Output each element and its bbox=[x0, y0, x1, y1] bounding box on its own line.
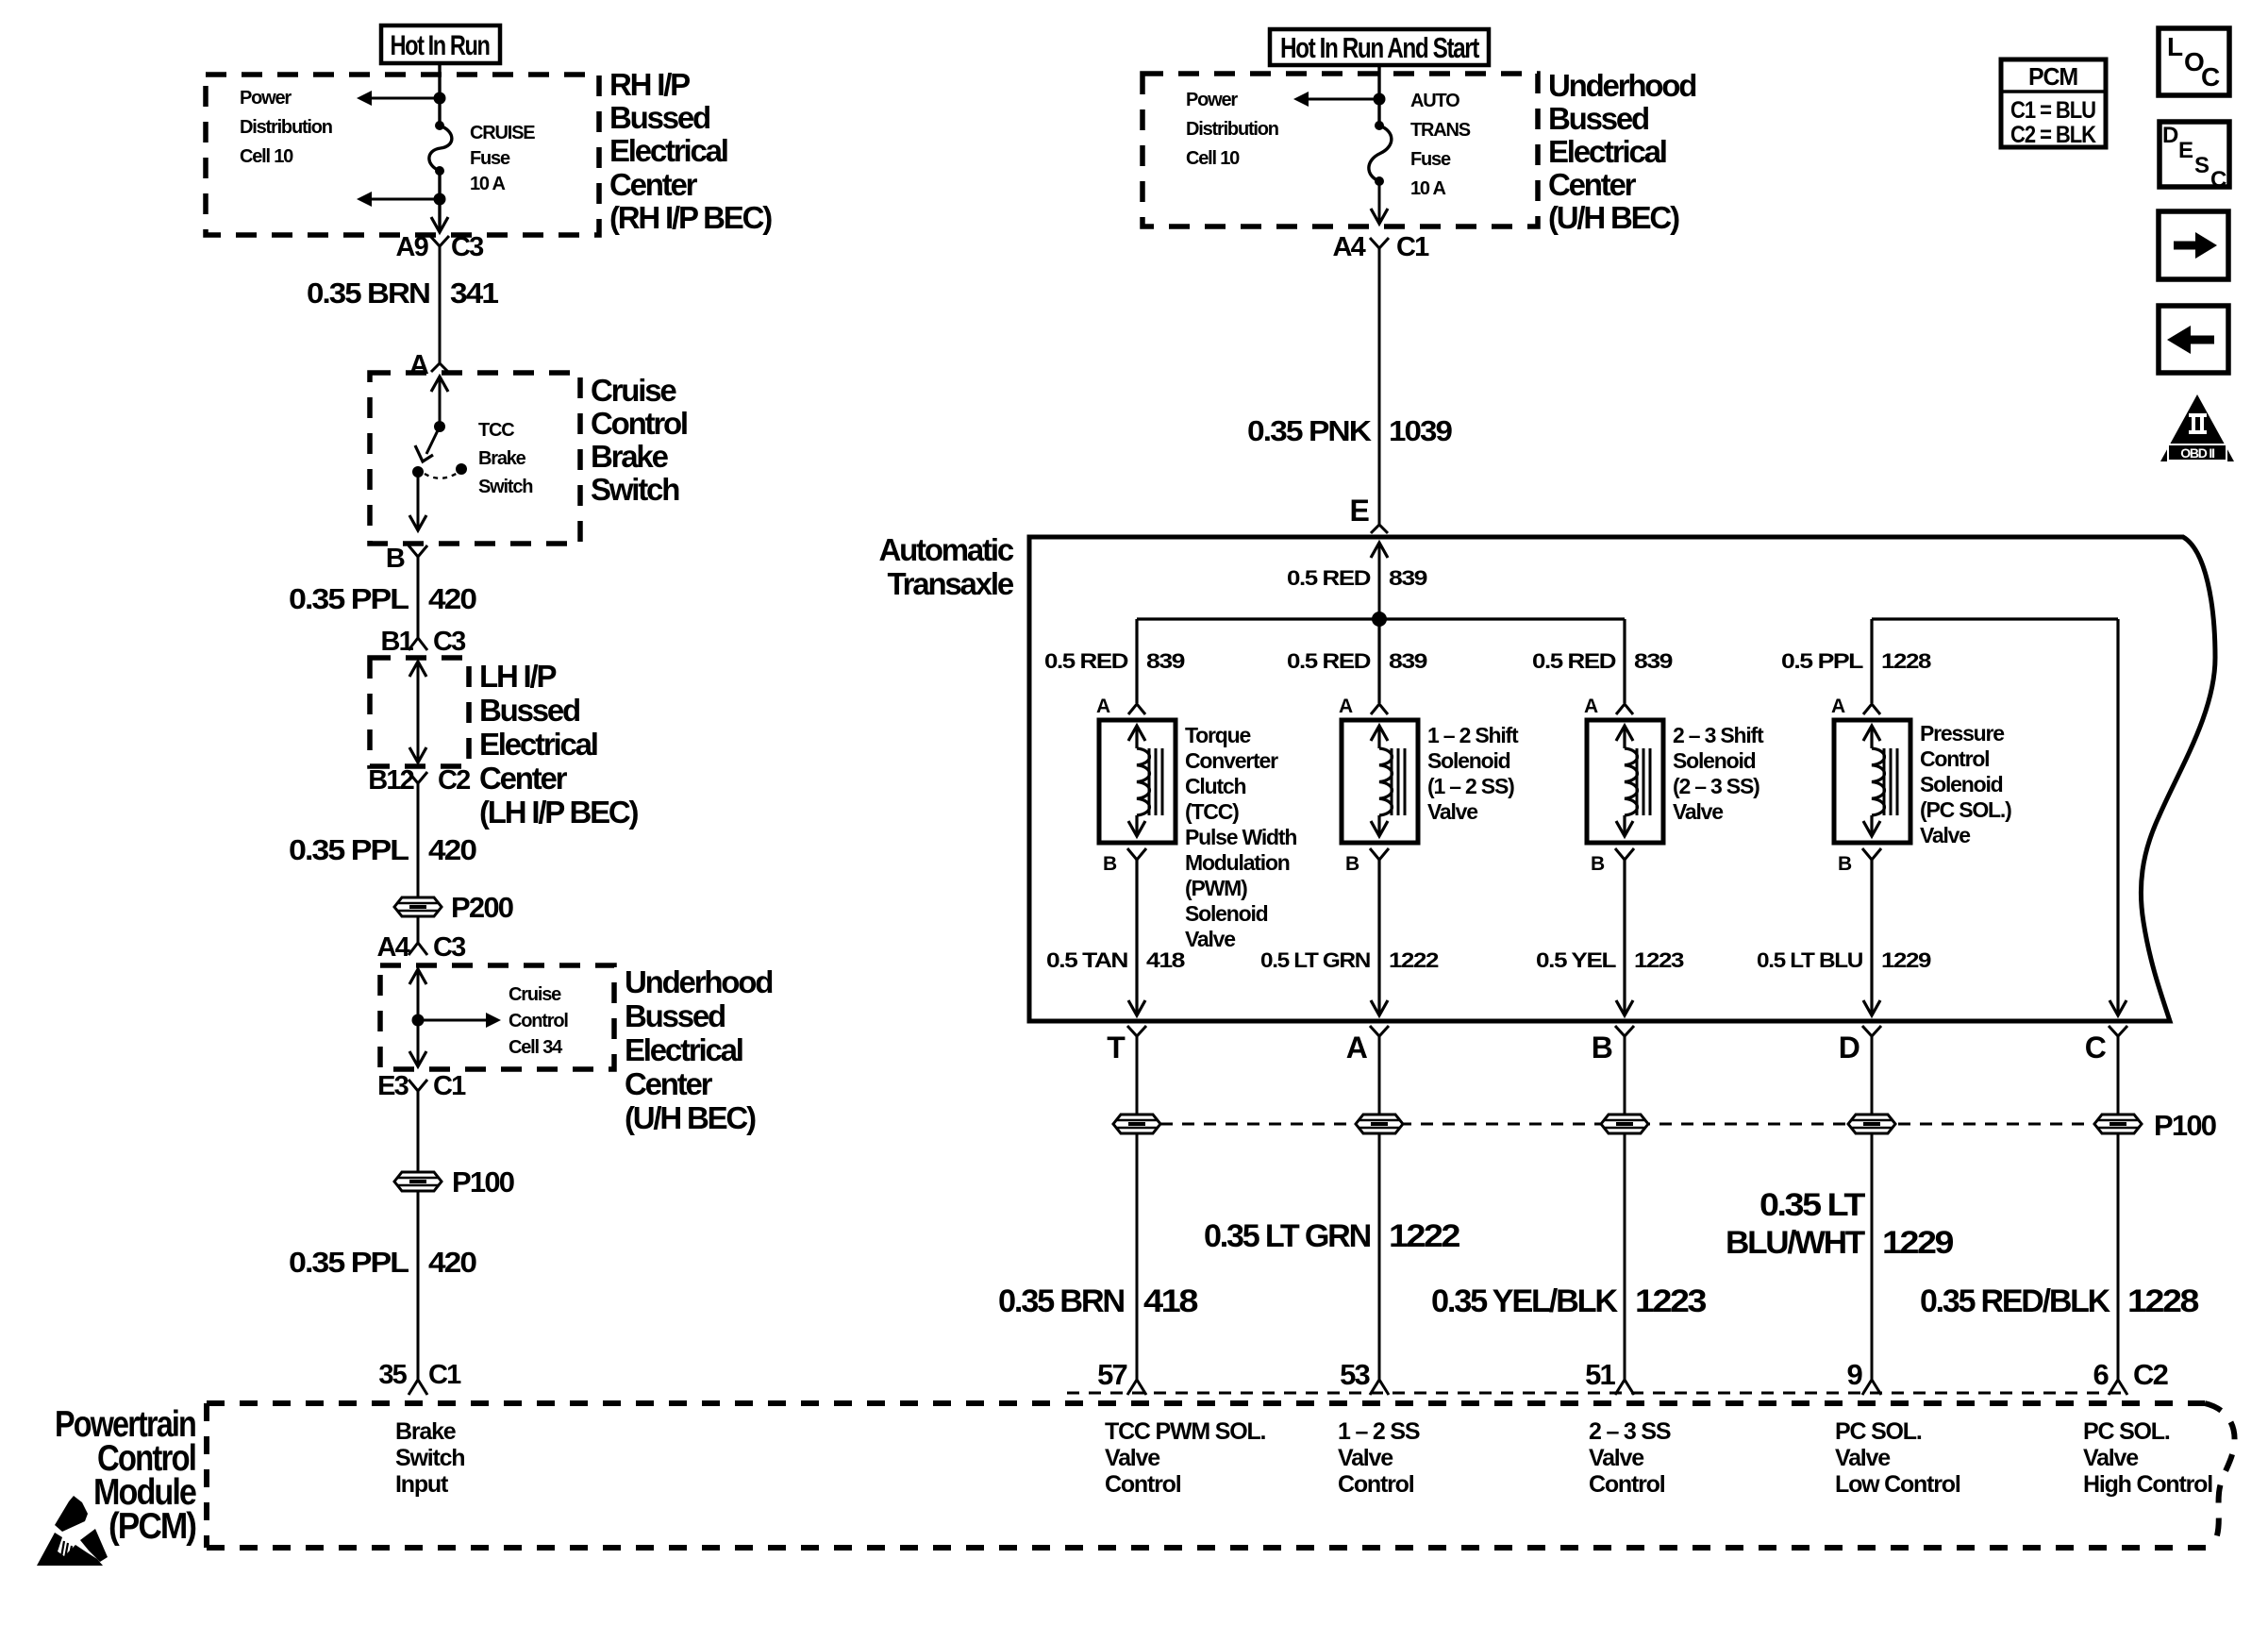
svg-text:0.35 YEL/BLK: 0.35 YEL/BLK bbox=[1431, 1283, 1619, 1319]
svg-text:Underhood: Underhood bbox=[625, 964, 772, 999]
svg-text:0.5 RED: 0.5 RED bbox=[1044, 649, 1127, 673]
svg-text:CRUISE: CRUISE bbox=[470, 123, 535, 143]
svg-text:Converter: Converter bbox=[1185, 748, 1278, 773]
svg-text:53: 53 bbox=[1340, 1358, 1370, 1391]
svg-text:Bussed: Bussed bbox=[625, 998, 725, 1033]
wire 420 PPL lower bbox=[417, 1192, 420, 1382]
svg-text:AUTO: AUTO bbox=[1410, 91, 1459, 111]
wire pressure control solenoid output bbox=[1870, 860, 1873, 1015]
arrow down at U/H BEC exit bbox=[1371, 209, 1388, 224]
svg-text:1228: 1228 bbox=[2127, 1283, 2198, 1319]
fuse AUTO TRANS 10A bbox=[1375, 121, 1384, 130]
svg-text:Valve: Valve bbox=[1589, 1445, 1644, 1471]
svg-text:Cruise: Cruise bbox=[591, 373, 676, 408]
connector P100 (left) bbox=[394, 1172, 442, 1191]
svg-text:Center: Center bbox=[609, 167, 698, 202]
svg-text:Pressure: Pressure bbox=[1920, 721, 2004, 746]
svg-text:(TCC): (TCC) bbox=[1185, 799, 1239, 824]
svg-text:C: C bbox=[2201, 62, 2220, 92]
svg-text:0.35 PPL: 0.35 PPL bbox=[289, 582, 409, 615]
svg-text:0.35 PNK: 0.35 PNK bbox=[1247, 414, 1373, 447]
svg-text:Switch: Switch bbox=[591, 472, 679, 507]
svg-text:Bussed: Bussed bbox=[609, 100, 709, 135]
connector P100 (D branch) bbox=[1848, 1115, 1895, 1133]
wire 2-3 shift solenoid output bbox=[1623, 860, 1626, 1015]
node junction (U/H BEC middle) bbox=[1374, 93, 1386, 106]
svg-text:(U/H BEC): (U/H BEC) bbox=[625, 1100, 756, 1135]
svg-text:(RH I/P BEC): (RH I/P BEC) bbox=[609, 200, 772, 235]
svg-text:A9: A9 bbox=[396, 232, 429, 262]
node junction upper (RH I/P BEC) bbox=[434, 92, 446, 105]
svg-text:Electrical: Electrical bbox=[625, 1032, 742, 1067]
RH I/P Bussed Electrical Center box bbox=[206, 75, 599, 235]
connector pin A (transaxle) bbox=[1370, 1026, 1389, 1036]
svg-text:51: 51 bbox=[1585, 1358, 1615, 1391]
wire switch output bbox=[417, 472, 420, 530]
svg-text:Switch: Switch bbox=[395, 1445, 464, 1471]
svg-text:0.5 LT GRN: 0.5 LT GRN bbox=[1260, 948, 1370, 972]
svg-text:A: A bbox=[1346, 1031, 1368, 1064]
connector P100 (T branch) bbox=[1113, 1115, 1160, 1133]
svg-text:1229: 1229 bbox=[1882, 1225, 1953, 1261]
wire T to P100 bbox=[1136, 1036, 1139, 1115]
svg-text:Automatic: Automatic bbox=[878, 532, 1013, 567]
svg-text:A: A bbox=[409, 350, 429, 380]
svg-text:420: 420 bbox=[428, 1246, 476, 1279]
svg-text:TCC: TCC bbox=[478, 420, 514, 441]
svg-text:Valve: Valve bbox=[1427, 799, 1477, 824]
svg-text:B: B bbox=[1592, 1031, 1612, 1064]
wire P200 to A4 bbox=[417, 917, 420, 943]
svg-text:6: 6 bbox=[2093, 1358, 2110, 1391]
svg-text:Solenoid: Solenoid bbox=[1920, 772, 2003, 796]
svg-text:C2: C2 bbox=[438, 765, 470, 796]
svg-text:10 A: 10 A bbox=[1410, 178, 1445, 199]
svg-text:1 – 2 SS: 1 – 2 SS bbox=[1338, 1418, 1420, 1445]
svg-text:D: D bbox=[1839, 1031, 1859, 1064]
Underhood Bussed Electrical Center box (left) bbox=[380, 965, 614, 1069]
svg-text:35: 35 bbox=[378, 1360, 407, 1390]
connector pin 53 (PCM) bbox=[1370, 1380, 1389, 1395]
svg-text:Valve: Valve bbox=[1673, 799, 1723, 824]
wire switch input with up arrow bbox=[431, 377, 448, 392]
wire C branch vertical bbox=[2116, 619, 2119, 1015]
power feed box Hot In Run bbox=[381, 25, 500, 63]
svg-text:0.5 RED: 0.5 RED bbox=[1287, 649, 1370, 673]
svg-text:P100: P100 bbox=[452, 1165, 514, 1199]
svg-text:1229: 1229 bbox=[1881, 948, 1931, 972]
svg-text:Power: Power bbox=[240, 88, 292, 109]
connector pin D (transaxle) bbox=[1862, 1026, 1881, 1036]
svg-text:Valve: Valve bbox=[2083, 1445, 2139, 1471]
svg-text:Hot In Run And Start: Hot In Run And Start bbox=[1280, 31, 1479, 64]
ESD sensitive device symbol bbox=[55, 1496, 88, 1532]
wire 420 PPL middle bbox=[417, 783, 420, 897]
svg-text:(2 – 3 SS): (2 – 3 SS) bbox=[1673, 774, 1759, 798]
connector pin 9 (PCM) bbox=[1862, 1380, 1881, 1395]
svg-text:E: E bbox=[1349, 494, 1369, 528]
connector P100 (A branch) bbox=[1356, 1115, 1403, 1133]
svg-text:TCC PWM SOL.: TCC PWM SOL. bbox=[1105, 1418, 1266, 1445]
wire through LH I/P BEC bbox=[409, 662, 426, 677]
wire ppl link C to PC SOL bbox=[1872, 617, 2118, 620]
svg-text:Power: Power bbox=[1186, 90, 1238, 110]
wire D to P100 bbox=[1871, 1036, 1874, 1115]
connector pin C (transaxle) bbox=[2109, 1026, 2127, 1036]
connector P100 (B branch) bbox=[1601, 1115, 1648, 1133]
svg-text:A: A bbox=[1831, 696, 1845, 717]
svg-text:Fuse: Fuse bbox=[470, 148, 510, 169]
svg-text:C1: C1 bbox=[1396, 232, 1429, 262]
LH I/P Bussed Electrical Center box bbox=[370, 658, 469, 766]
svg-text:10 A: 10 A bbox=[470, 174, 505, 194]
svg-text:1222: 1222 bbox=[1389, 948, 1439, 972]
svg-text:Electrical: Electrical bbox=[609, 133, 727, 168]
svg-text:S: S bbox=[2194, 153, 2210, 178]
svg-text:Control: Control bbox=[1589, 1471, 1665, 1498]
wire 1039 PNK bbox=[1378, 248, 1381, 525]
svg-text:420: 420 bbox=[428, 833, 476, 866]
svg-text:B: B bbox=[1838, 853, 1852, 875]
svg-text:C1 = BLU: C1 = BLU bbox=[2010, 97, 2095, 124]
svg-text:Distribution: Distribution bbox=[1186, 119, 1278, 140]
svg-text:839: 839 bbox=[1146, 649, 1185, 673]
svg-text:1039: 1039 bbox=[1389, 414, 1453, 447]
svg-text:0.5 LT BLU: 0.5 LT BLU bbox=[1757, 948, 1862, 972]
svg-text:D: D bbox=[2162, 123, 2178, 148]
svg-text:Cell 34: Cell 34 bbox=[509, 1037, 563, 1058]
svg-text:Solenoid: Solenoid bbox=[1185, 901, 1268, 926]
svg-text:1223: 1223 bbox=[1635, 1283, 1706, 1319]
solenoid TCC PWM solenoid bbox=[1099, 720, 1176, 843]
Automatic Transaxle box bbox=[1029, 537, 2215, 1021]
svg-text:A4: A4 bbox=[1333, 232, 1366, 262]
svg-text:0.35 LT: 0.35 LT bbox=[1759, 1187, 1866, 1223]
wire red bus bbox=[1137, 617, 1625, 620]
connector pin B (transaxle) bbox=[1615, 1026, 1634, 1036]
svg-text:Brake: Brake bbox=[591, 439, 669, 474]
svg-text:OBD II: OBD II bbox=[2180, 445, 2214, 461]
svg-text:Transaxle: Transaxle bbox=[888, 566, 1014, 601]
node junction cruise cell bbox=[412, 1014, 425, 1027]
svg-text:BLU/WHT: BLU/WHT bbox=[1726, 1225, 1866, 1261]
svg-text:Cruise: Cruise bbox=[509, 984, 561, 1005]
svg-text:PC SOL.: PC SOL. bbox=[1835, 1418, 1922, 1445]
fuse CRUISE 10A bbox=[435, 121, 444, 130]
svg-text:0.35 BRN: 0.35 BRN bbox=[307, 277, 429, 310]
wire through U/H BEC left bbox=[409, 969, 426, 984]
wire E feed inside transaxle bbox=[1371, 543, 1388, 558]
svg-text:Valve: Valve bbox=[1185, 927, 1235, 951]
svg-text:Valve: Valve bbox=[1920, 823, 1970, 847]
svg-text:(PWM): (PWM) bbox=[1185, 876, 1247, 900]
wire B to PCM bbox=[1624, 1133, 1626, 1382]
svg-text:B: B bbox=[1103, 853, 1117, 875]
icon LOC bbox=[2159, 28, 2229, 95]
arrow down at RH I/P BEC exit bbox=[431, 217, 448, 232]
svg-text:Center: Center bbox=[1548, 167, 1637, 202]
svg-text:Bussed: Bussed bbox=[1548, 101, 1648, 136]
connector P100 dashed line bbox=[1160, 1123, 2118, 1126]
svg-text:RH I/P: RH I/P bbox=[609, 67, 690, 102]
wire branch arrow upper left bbox=[369, 97, 440, 100]
wire Hot In Run to fuse bbox=[438, 63, 441, 126]
Underhood Bussed Electrical Center box (middle) bbox=[1142, 74, 1538, 226]
svg-text:LH I/P: LH I/P bbox=[479, 659, 556, 694]
wire T to PCM bbox=[1136, 1133, 1139, 1382]
svg-text:Control: Control bbox=[1920, 746, 1989, 771]
connector P200 bbox=[394, 897, 442, 916]
svg-text:0.5 RED: 0.5 RED bbox=[1287, 566, 1370, 590]
wire 341 BRN bbox=[439, 246, 442, 363]
wire C to PCM bbox=[2117, 1133, 2120, 1382]
svg-text:C3: C3 bbox=[433, 627, 466, 657]
svg-text:0.35 PPL: 0.35 PPL bbox=[289, 833, 409, 866]
svg-text:418: 418 bbox=[1146, 948, 1185, 972]
svg-text:C2 = BLK: C2 = BLK bbox=[2010, 122, 2096, 148]
svg-text:C3: C3 bbox=[451, 232, 484, 262]
svg-text:C: C bbox=[2210, 167, 2226, 193]
svg-text:(1 – 2 SS): (1 – 2 SS) bbox=[1427, 774, 1514, 798]
svg-text:B: B bbox=[1345, 853, 1359, 875]
wire branch arrow lower left bbox=[369, 198, 440, 201]
svg-text:(PC SOL.): (PC SOL.) bbox=[1920, 797, 2011, 822]
svg-text:341: 341 bbox=[450, 277, 499, 310]
svg-text:(PCM): (PCM) bbox=[108, 1506, 196, 1547]
svg-text:P100: P100 bbox=[2154, 1109, 2216, 1142]
svg-text:Cell 10: Cell 10 bbox=[1186, 148, 1240, 169]
svg-text:Input: Input bbox=[395, 1471, 449, 1498]
svg-text:Solenoid: Solenoid bbox=[1673, 748, 1756, 773]
node junction lower (RH I/P BEC) bbox=[434, 193, 446, 206]
svg-text:0.5 RED: 0.5 RED bbox=[1532, 649, 1615, 673]
svg-text:P200: P200 bbox=[451, 891, 513, 924]
wire branch arrow left (middle) bbox=[1306, 98, 1379, 101]
svg-text:0.35 RED/BLK: 0.35 RED/BLK bbox=[1920, 1283, 2111, 1319]
icon DESC bbox=[2160, 122, 2229, 187]
svg-text:A: A bbox=[1584, 696, 1598, 717]
svg-text:Electrical: Electrical bbox=[479, 727, 597, 762]
connector pin T (transaxle) bbox=[1127, 1026, 1146, 1036]
svg-text:Switch: Switch bbox=[478, 477, 532, 497]
solenoid 2-3 shift solenoid bbox=[1587, 720, 1663, 843]
svg-text:A: A bbox=[1339, 696, 1353, 717]
svg-text:Center: Center bbox=[479, 761, 568, 796]
svg-text:Control: Control bbox=[1338, 1471, 1414, 1498]
svg-text:0.5 YEL: 0.5 YEL bbox=[1536, 948, 1616, 972]
solenoid 1-2 shift solenoid bbox=[1342, 720, 1418, 843]
svg-text:C2: C2 bbox=[2133, 1358, 2168, 1391]
svg-text:B1: B1 bbox=[381, 627, 414, 657]
wire E3 to P100 bbox=[417, 1091, 420, 1180]
svg-text:B: B bbox=[1591, 853, 1605, 875]
svg-text:Control: Control bbox=[509, 1011, 568, 1031]
svg-text:0.35 LT GRN: 0.35 LT GRN bbox=[1204, 1218, 1371, 1254]
svg-text:Torque: Torque bbox=[1185, 723, 1250, 747]
svg-text:839: 839 bbox=[1389, 566, 1427, 590]
svg-text:Underhood: Underhood bbox=[1548, 68, 1695, 103]
svg-text:(U/H BEC): (U/H BEC) bbox=[1548, 200, 1679, 235]
Powertrain Control Module box bbox=[207, 1400, 2205, 1406]
svg-text:Valve: Valve bbox=[1835, 1445, 1891, 1471]
svg-text:Solenoid: Solenoid bbox=[1427, 748, 1510, 773]
svg-text:0.35 BRN: 0.35 BRN bbox=[998, 1283, 1125, 1319]
svg-text:Valve: Valve bbox=[1105, 1445, 1160, 1471]
svg-text:0.5 PPL: 0.5 PPL bbox=[1781, 649, 1863, 673]
switch TCC brake bbox=[434, 421, 445, 432]
svg-text:(LH I/P BEC): (LH I/P BEC) bbox=[479, 795, 639, 830]
connector pin 6 (PCM) bbox=[2109, 1380, 2127, 1395]
svg-text:A: A bbox=[1096, 696, 1110, 717]
wire fuse to box exit bbox=[1378, 181, 1381, 224]
wire Hot In Run And Start to fuse bbox=[1377, 65, 1380, 126]
svg-text:L: L bbox=[2167, 32, 2183, 61]
svg-text:Fuse: Fuse bbox=[1410, 149, 1451, 170]
svg-text:Distribution: Distribution bbox=[240, 117, 332, 138]
wire B to P100 bbox=[1624, 1036, 1626, 1115]
svg-text:Brake: Brake bbox=[478, 448, 526, 469]
svg-text:C: C bbox=[2085, 1031, 2107, 1064]
wire branch arrow to Cruise Control Cell 34 bbox=[418, 1019, 489, 1022]
icon arrow previous bbox=[2159, 306, 2228, 373]
Cruise Control Brake Switch box bbox=[370, 373, 580, 544]
svg-text:Valve: Valve bbox=[1338, 1445, 1393, 1471]
svg-text:Control: Control bbox=[591, 406, 687, 441]
svg-text:Low Control: Low Control bbox=[1835, 1471, 1960, 1498]
svg-text:PCM: PCM bbox=[2028, 62, 2077, 91]
svg-text:C3: C3 bbox=[433, 932, 466, 963]
svg-text:PC SOL.: PC SOL. bbox=[2083, 1418, 2170, 1445]
svg-text:Electrical: Electrical bbox=[1548, 134, 1666, 169]
solenoid pressure control solenoid bbox=[1834, 720, 1910, 843]
wire 1-2 shift solenoid output bbox=[1377, 860, 1380, 1015]
svg-text:2 – 3 Shift: 2 – 3 Shift bbox=[1673, 723, 1764, 747]
svg-text:Modulation: Modulation bbox=[1185, 850, 1290, 875]
svg-text:418: 418 bbox=[1143, 1283, 1197, 1319]
PCM connector legend box bbox=[2001, 59, 2106, 147]
connector line C2 (thin dashed) bbox=[1067, 1392, 2128, 1395]
svg-text:839: 839 bbox=[1634, 649, 1673, 673]
svg-text:C1: C1 bbox=[433, 1071, 466, 1101]
svg-text:High Control: High Control bbox=[2083, 1471, 2212, 1498]
connector pin 57 (PCM) bbox=[1127, 1380, 1146, 1395]
svg-text:9: 9 bbox=[1847, 1358, 1863, 1391]
svg-text:Hot In Run: Hot In Run bbox=[391, 30, 490, 61]
svg-text:E3: E3 bbox=[377, 1071, 409, 1101]
wire A to P100 bbox=[1378, 1036, 1381, 1115]
svg-text:57: 57 bbox=[1097, 1358, 1126, 1391]
svg-text:0.35 PPL: 0.35 PPL bbox=[289, 1246, 409, 1279]
connector pin 51 (PCM) bbox=[1615, 1380, 1634, 1395]
icon arrow next bbox=[2159, 211, 2228, 279]
svg-text:839: 839 bbox=[1389, 649, 1427, 673]
svg-text:Cell 10: Cell 10 bbox=[240, 146, 293, 167]
svg-text:TRANS: TRANS bbox=[1410, 120, 1471, 141]
wire D to PCM bbox=[1871, 1133, 1874, 1382]
wire TCC PWM solenoid output bbox=[1135, 860, 1138, 1015]
wire C to P100 bbox=[2117, 1036, 2120, 1115]
icon OBD II bbox=[2160, 394, 2234, 461]
svg-text:Center: Center bbox=[625, 1066, 713, 1101]
svg-text:420: 420 bbox=[428, 582, 476, 615]
svg-text:Pulse Width: Pulse Width bbox=[1185, 825, 1296, 849]
power feed box Hot In Run And Start bbox=[1270, 29, 1489, 65]
node solenoid feed junction bbox=[1372, 612, 1387, 627]
svg-text:B: B bbox=[386, 544, 405, 574]
wire A to PCM bbox=[1378, 1133, 1381, 1382]
wire 420 PPL upper bbox=[417, 557, 420, 638]
connector P100 (C branch) bbox=[2094, 1115, 2142, 1133]
svg-text:0.5 TAN: 0.5 TAN bbox=[1046, 948, 1127, 972]
wire fuse to box bottom bbox=[438, 171, 441, 232]
svg-text:2 – 3 SS: 2 – 3 SS bbox=[1589, 1418, 1671, 1445]
svg-text:1 – 2 Shift: 1 – 2 Shift bbox=[1427, 723, 1519, 747]
svg-text:1222: 1222 bbox=[1389, 1218, 1459, 1254]
svg-text:1228: 1228 bbox=[1881, 649, 1931, 673]
svg-text:E: E bbox=[2178, 138, 2193, 163]
svg-text:T: T bbox=[1107, 1031, 1126, 1064]
svg-text:B12: B12 bbox=[368, 765, 413, 796]
svg-text:Brake: Brake bbox=[395, 1418, 457, 1445]
svg-text:Clutch: Clutch bbox=[1185, 774, 1246, 798]
svg-text:Bussed: Bussed bbox=[479, 693, 579, 728]
svg-text:A4: A4 bbox=[377, 932, 410, 963]
svg-text:1223: 1223 bbox=[1634, 948, 1684, 972]
svg-text:C1: C1 bbox=[428, 1360, 461, 1390]
svg-text:Control: Control bbox=[1105, 1471, 1181, 1498]
